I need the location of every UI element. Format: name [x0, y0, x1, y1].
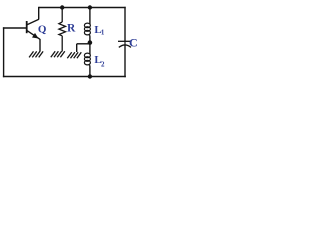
ground (below R): [51, 51, 65, 57]
ground (emitter): [29, 51, 43, 57]
wire collector vertical: [38, 7, 40, 20]
ground (tap): [67, 52, 81, 58]
wire base: [3, 27, 27, 29]
wire left vertical: [3, 27, 5, 77]
node (L1 to top rail): [88, 5, 92, 9]
wire tap vertical: [76, 44, 78, 52]
svg-text:C: C: [129, 36, 138, 50]
inductor L2: [84, 43, 90, 77]
wire bottom rail: [3, 76, 126, 78]
svg-text:R: R: [67, 23, 76, 35]
svg-text:Q: Q: [38, 24, 47, 36]
capacitor C: [118, 41, 131, 47]
node (R to top rail): [60, 5, 64, 9]
svg-text:2: 2: [101, 60, 105, 68]
wire tap horizontal: [77, 43, 90, 45]
wire emitter vertical: [39, 39, 41, 52]
wire right vertical upper: [124, 7, 126, 42]
wire top rail: [39, 7, 126, 9]
inductor L1: [84, 8, 90, 43]
node (L2 to bottom rail): [88, 74, 92, 78]
node (tap between L1 and L2): [88, 40, 93, 45]
resistor R: [59, 8, 66, 52]
wire right vertical lower: [124, 45, 126, 77]
transistor Q: [27, 19, 40, 39]
svg-text:1: 1: [101, 29, 105, 37]
